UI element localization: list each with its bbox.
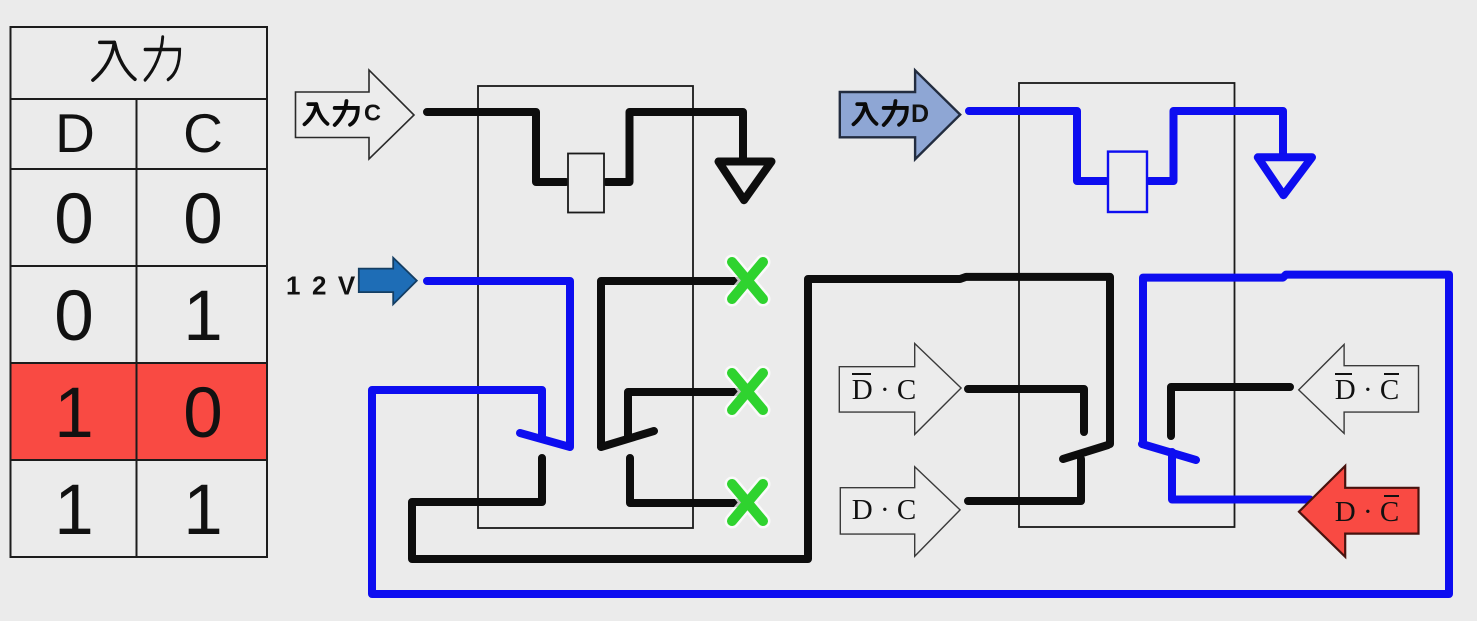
svg-text:12V: 12V (286, 271, 367, 301)
svg-text:1: 1 (54, 471, 94, 550)
svg-text:0: 0 (54, 180, 94, 259)
wire: NC contact C1 through bottom loop to relay D contact (blue active path) (372, 275, 1449, 594)
svg-text:0: 0 (183, 180, 223, 259)
output arrow D·C (840, 467, 960, 557)
relay C box (478, 86, 693, 528)
input D arrow (840, 70, 960, 159)
coil D (1108, 152, 1147, 212)
wire: input C to coil (427, 112, 566, 182)
svg-text:0: 0 (54, 277, 94, 356)
contact blade C2 (black) (601, 431, 654, 447)
wire: X2 stub (628, 392, 743, 437)
wire: coil C to ground (606, 112, 743, 182)
svg-text:0: 0 (183, 374, 223, 453)
svg-text:1: 1 (183, 471, 223, 550)
wire: D̄·C stub (968, 389, 1084, 432)
output arrow D·C̄ (active, red) (1299, 466, 1419, 557)
table red row highlight (11, 363, 268, 460)
wire: coil D to ground (1149, 111, 1283, 181)
12V source arrow (359, 258, 417, 305)
contact blade D1 (blue, closed to NO) (1142, 444, 1196, 460)
coil C (568, 154, 604, 213)
contact blade C1 (blue, closed to NC) (520, 433, 570, 447)
wire: input D to coil (969, 111, 1106, 181)
svg-text:1: 1 (54, 374, 94, 453)
truth table (11, 27, 268, 557)
table row lines (11, 98, 268, 100)
X mark 1 (732, 262, 763, 299)
svg-text:C: C (183, 102, 223, 164)
table column divider (136, 99, 138, 557)
table column headers D C (55, 102, 223, 164)
table outer border (11, 27, 268, 557)
svg-text:D · C: D · C (1335, 374, 1399, 406)
svg-text:D: D (911, 100, 929, 128)
wire: X3 stub (630, 458, 743, 503)
wire: relay C common to X1 (601, 281, 742, 446)
svg-text:D · C: D · C (1335, 496, 1399, 528)
wire: 12V feed into relay C contact (427, 281, 570, 446)
ground C (719, 162, 772, 201)
svg-text:D: D (55, 102, 95, 164)
svg-text:D · C: D · C (852, 494, 916, 526)
wire: D̄·C̄ stub (1171, 387, 1290, 436)
wire: NO contact C1 big loop to relay D common (412, 277, 1110, 559)
svg-text:C: C (364, 100, 381, 126)
X mark 2 (732, 373, 763, 410)
table data digits (54, 180, 223, 550)
ground D (1258, 157, 1312, 195)
X mark 3 (732, 484, 763, 521)
input C arrow (296, 70, 415, 159)
svg-text:1: 1 (183, 277, 223, 356)
svg-text:D · C: D · C (852, 374, 916, 406)
wire: relay D output to D·C̄ arrow (1172, 452, 1310, 500)
contact blade D2 (black, open) (1063, 445, 1108, 459)
output arrow D̄·C (839, 344, 961, 435)
output arrow D̄·C̄ (1299, 345, 1419, 434)
table header kanji 入力 (93, 37, 180, 80)
relay D box (1019, 83, 1235, 527)
wire: D·C stub (968, 459, 1081, 501)
